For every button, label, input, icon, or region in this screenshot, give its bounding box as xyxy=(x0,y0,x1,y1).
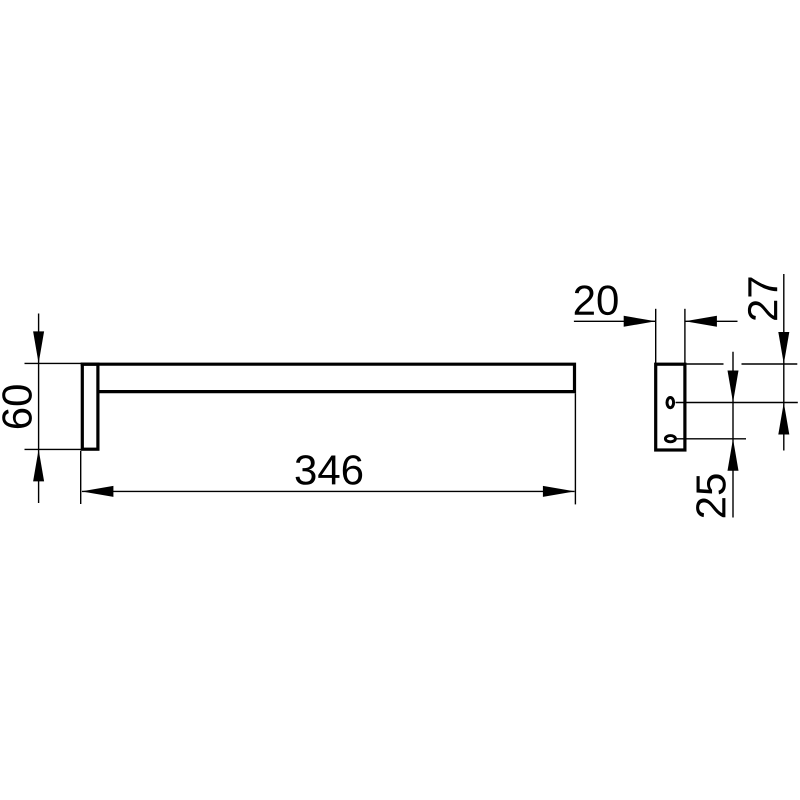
dimension line 20 left tail xyxy=(574,320,656,322)
label 346 xyxy=(296,455,363,485)
extension line 20 right (vertical) xyxy=(684,309,686,364)
label 60 xyxy=(2,385,32,428)
extension line top left (60 dim) xyxy=(25,362,83,364)
arrow 25 top (down) xyxy=(728,371,739,403)
dimension line 25 (vertical) xyxy=(732,352,734,518)
dimension line 60 (vertical) xyxy=(38,314,40,504)
label 20 xyxy=(575,285,618,315)
leader line upper hole (horizontal) xyxy=(676,402,798,404)
leader line lower hole (horizontal) xyxy=(675,438,746,440)
towel bar outline (front view) xyxy=(81,364,575,391)
extension line 20 left (vertical) xyxy=(655,309,657,364)
extension line bottom left (60 dim) xyxy=(25,448,83,450)
lower screw hole (slot) xyxy=(665,436,675,442)
label 27 xyxy=(748,277,777,319)
arrow 60 bottom (up) xyxy=(33,449,44,481)
extension line plate top right segment b (27 dim) xyxy=(742,363,798,365)
dimension line 27 (vertical) xyxy=(783,274,785,451)
arrow 27 top (down) xyxy=(778,332,789,364)
arrow 25 bottom (up) xyxy=(728,439,739,471)
label 25 xyxy=(696,474,726,517)
arrow 27 bottom (up) xyxy=(778,403,789,435)
extension line 346 right (vertical) xyxy=(574,393,576,504)
arrow 20 left (pointing right) xyxy=(624,316,656,327)
dimension line 346 (horizontal) xyxy=(82,490,575,492)
arrow 20 right (pointing left) xyxy=(685,316,717,327)
wall plate end view (side view rectangle) xyxy=(656,364,685,450)
extension line 346 left (vertical) xyxy=(80,451,82,504)
dimension line 20 right tail xyxy=(685,320,737,322)
arrow 346 left xyxy=(81,486,113,497)
upper screw hole (slot) xyxy=(667,398,674,408)
extension line plate top right segment a (27 dim) xyxy=(687,363,724,365)
wall plate (front view) xyxy=(82,364,98,449)
arrow 60 top (down) xyxy=(33,331,44,363)
arrow 346 right xyxy=(543,486,575,497)
